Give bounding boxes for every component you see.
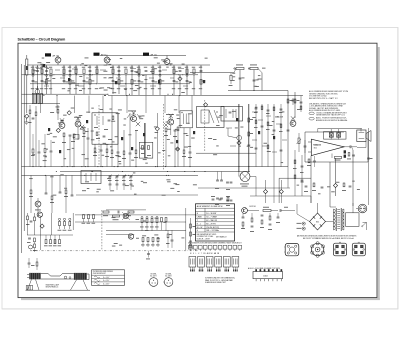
wire center right h196 xyxy=(250,195,311,197)
component drop 9 top band xyxy=(83,75,85,94)
component drop 5 top band xyxy=(50,75,52,94)
cap C24 cluster xyxy=(253,79,256,81)
wire caps to amp xyxy=(326,131,344,133)
resistor R22 cluster xyxy=(250,67,258,69)
circle above filters xyxy=(35,89,40,94)
wire osc net xyxy=(30,175,32,190)
transistor T8 xyxy=(168,119,174,125)
transistor T4 right col xyxy=(290,121,296,127)
amp pin stubs xyxy=(308,141,311,143)
label box D3 xyxy=(143,53,149,56)
node diamond C xyxy=(155,127,159,131)
component drop 7 top band xyxy=(69,66,71,94)
parts right of amp xyxy=(348,153,350,157)
wire bus y234.3 xyxy=(106,233,134,235)
wire pass-through v8 xyxy=(164,96,166,114)
bridge rectifier GL1 xyxy=(310,213,326,230)
component drop 11 top band xyxy=(96,66,98,83)
cap C23 cluster xyxy=(239,77,242,79)
res row mid3 xyxy=(142,238,144,242)
IC U2 DIP package xyxy=(253,272,283,279)
transformer TR1 xyxy=(335,208,337,231)
wire lower h y235 xyxy=(27,234,73,236)
wire lower v x41 xyxy=(40,217,42,250)
svg-text:ZUORDNUNG DER KURVEN: ZUORDNUNG DER KURVEN xyxy=(93,271,113,273)
stage C parts xyxy=(165,128,167,132)
waveform legend box xyxy=(92,270,125,286)
box oscillator coil xyxy=(81,171,101,184)
switch contact strip xyxy=(189,245,193,249)
stage A2 below xyxy=(94,148,96,152)
parts mid cluster xyxy=(45,240,47,244)
value labels top band xyxy=(109,76,113,79)
dial body xyxy=(41,274,89,280)
parts upper 252-282 xyxy=(255,107,258,109)
stage B parts xyxy=(63,133,65,137)
svg-text:ZUM MESSPUNKT: ZUM MESSPUNKT xyxy=(93,273,106,275)
socket BU4 xyxy=(352,243,365,256)
trimmer labels xyxy=(108,179,112,182)
wire pass-through v7 xyxy=(145,96,147,114)
node dot cluster xyxy=(254,90,255,91)
svg-text:BODEN-: BODEN- xyxy=(166,273,172,275)
coil box low xyxy=(139,142,153,158)
wire left bus b xyxy=(23,65,25,231)
wire pass-through v3 xyxy=(74,96,76,114)
node diamond osc xyxy=(40,224,44,228)
component drop 3 top band xyxy=(41,66,43,94)
parts 256-284 xyxy=(255,104,257,167)
wire pass-through v6 xyxy=(126,96,128,114)
node diamond center 2 xyxy=(279,190,283,194)
component drop 19 top band xyxy=(159,66,161,95)
transistor T5 xyxy=(59,123,65,129)
svg-text:250 W. 807 PQ: 250 W. 807 PQ xyxy=(206,227,219,229)
component drop 8 top band xyxy=(75,66,77,94)
node diamond amp out xyxy=(333,183,337,187)
node diamond center 1 xyxy=(263,190,267,194)
wire stubs IF right xyxy=(252,111,257,113)
parts below amp left xyxy=(308,159,310,163)
wire cluster drops xyxy=(239,70,241,91)
wire amp down x353 xyxy=(352,150,354,206)
resistor R21 cluster xyxy=(236,67,244,69)
transistor T3 xyxy=(164,59,170,65)
wires preamp col xyxy=(294,150,296,196)
parts col mid xyxy=(167,234,169,238)
transistor T12 BC158 xyxy=(242,208,248,214)
parts value table xyxy=(196,204,235,241)
pot volume xyxy=(298,138,300,144)
component drop 4 top band xyxy=(46,66,48,94)
svg-text:BODEN-: BODEN- xyxy=(151,273,157,275)
resistor R31 xyxy=(57,110,59,114)
svg-text:10 – 30 KW: 10 – 30 KW xyxy=(206,213,216,215)
supply wiring xyxy=(297,214,310,222)
parts under y205 xyxy=(103,211,109,213)
frame shadow bottom xyxy=(21,298,380,300)
bits near 252b xyxy=(251,218,253,222)
component drop 12 top band xyxy=(112,66,114,94)
transistor T2 xyxy=(104,57,110,63)
svg-text:80 – 29 PO: 80 – 29 PO xyxy=(206,223,216,225)
wire lower v x51 xyxy=(50,213,52,235)
svg-text:Schaltbild – Circuit Diagram: Schaltbild – Circuit Diagram xyxy=(18,37,67,41)
IF block box 3 xyxy=(197,107,225,128)
cap C64 right edge xyxy=(367,157,370,159)
wire mid bus y171.5 xyxy=(60,171,250,173)
node diamond B xyxy=(56,128,60,132)
detector box xyxy=(221,107,243,122)
wire bus y74.8 xyxy=(22,74,199,76)
wire left bus a xyxy=(21,64,23,253)
parts above table xyxy=(212,198,215,200)
wire lower v x73 xyxy=(72,213,74,230)
node diamond C2 xyxy=(176,147,180,151)
cap C58 xyxy=(304,145,307,147)
value labels amp lower xyxy=(357,188,360,191)
wire pass-through v9 xyxy=(178,96,180,114)
transistor T16 xyxy=(128,234,133,239)
svg-text:GEMESSEN MIT TASTKOPF 10:1: GEMESSEN MIT TASTKOPF 10:1 xyxy=(316,114,345,117)
value labels IF band xyxy=(91,107,94,110)
tuning gang VC1 xyxy=(240,172,250,182)
svg-text:ANWEISUNG IM SERVICE-MANUAL: ANWEISUNG IM SERVICE-MANUAL xyxy=(316,119,348,122)
stage A parts xyxy=(29,110,31,114)
wire right col x295 xyxy=(294,92,296,118)
svg-text:B30: B30 xyxy=(316,221,319,223)
parts x248 col xyxy=(248,118,250,122)
label box D2 xyxy=(94,53,100,56)
bus dots xyxy=(33,166,34,167)
wire pass-through v1 xyxy=(40,96,42,114)
wire right edge xyxy=(368,128,370,205)
parts row low C xyxy=(183,150,185,154)
component drop 22 top band xyxy=(186,66,188,95)
cap C63 coupling xyxy=(349,145,351,148)
resistor trio circles xyxy=(58,218,60,220)
cap hang C80 xyxy=(147,253,150,255)
node diamond A xyxy=(67,111,71,115)
mains box xyxy=(346,213,360,227)
wire center h188 xyxy=(198,187,290,189)
wire v x185.8 xyxy=(185,208,187,250)
chassis dash line xyxy=(30,250,198,252)
wire bus y94.2 xyxy=(22,93,109,95)
wire heavy x238.9 xyxy=(238,104,240,172)
notes item symbol 1 xyxy=(309,112,314,115)
parts left cluster b xyxy=(29,245,33,249)
wire mid bus y153 xyxy=(196,152,256,154)
transistor T6 xyxy=(75,121,81,127)
svg-text:L/M/K: L/M/K xyxy=(197,217,203,219)
cap C55 xyxy=(279,209,281,212)
osc transistor T11 xyxy=(35,201,41,207)
ground left xyxy=(25,118,27,122)
component drop 23 top band xyxy=(193,75,195,95)
op-amp U1 TAA611 xyxy=(311,139,344,155)
svg-text:TAA611: TAA611 xyxy=(313,144,322,147)
node diamond top xyxy=(178,77,182,81)
heavy vertical core xyxy=(144,123,146,158)
value labels lower mid2 xyxy=(112,245,116,248)
adjust cross marks xyxy=(60,118,64,122)
svg-text:K – L: K – L xyxy=(197,223,201,225)
parts row low A0 xyxy=(32,149,34,153)
supply terminals xyxy=(302,222,305,225)
dark blob upper xyxy=(43,64,46,67)
node diamond antenna xyxy=(25,114,29,118)
junction dots xyxy=(166,175,167,176)
switch wafer row xyxy=(189,257,196,268)
res pair mid2 xyxy=(161,218,163,222)
label box D1 xyxy=(45,53,51,56)
value labels cluster xyxy=(231,79,235,82)
component drop 13 top band xyxy=(118,66,120,94)
svg-text:AF 12x: AF 12x xyxy=(151,54,159,57)
wire right col x288 xyxy=(287,91,289,167)
cap pair group 1 xyxy=(216,179,219,181)
value labels IF right xyxy=(213,153,217,156)
dashed divider x163 xyxy=(162,104,164,170)
transistor T1 xyxy=(55,57,61,63)
wire bus y90.5 right xyxy=(228,90,288,92)
dashed divider x99 xyxy=(98,105,100,165)
cap C38 xyxy=(139,115,142,117)
svg-text:AF 12x: AF 12x xyxy=(53,54,61,57)
mains plug xyxy=(358,204,367,213)
value labels osc xyxy=(110,189,114,192)
component drop 1 top band xyxy=(32,66,34,94)
svg-text:B11: B11 xyxy=(314,147,317,149)
svg-text:U = 2,3 V: U = 2,3 V xyxy=(103,280,109,282)
parts row low A xyxy=(111,150,113,154)
notes item symbol 2 xyxy=(309,117,314,120)
wire mid bus y166.6 xyxy=(22,166,289,168)
filter box X1 xyxy=(32,94,37,104)
wire bus y95.5 xyxy=(108,95,303,97)
resistor R23 hang xyxy=(230,75,232,80)
svg-text:50 – 7 UMM: 50 – 7 UMM xyxy=(206,217,217,219)
component drop 20 top band xyxy=(173,66,175,95)
svg-text:C304: C304 xyxy=(263,275,268,277)
dash divider x102 xyxy=(101,210,103,250)
transistor T14 xyxy=(37,212,42,217)
cap box above amp xyxy=(324,132,347,140)
wire bus y103.5 xyxy=(22,103,61,105)
wire h y215 xyxy=(75,214,196,216)
value labels lower mid xyxy=(162,194,166,197)
IF block box 2 xyxy=(180,111,192,128)
filter box X2 xyxy=(38,94,43,104)
cap C62 electrolytic xyxy=(337,133,341,138)
wire to right y195 xyxy=(76,194,198,196)
parts left col a xyxy=(27,216,29,220)
component drop 6 top band xyxy=(63,66,65,83)
wire pass-through v2 xyxy=(56,96,58,114)
bits near 262b xyxy=(261,214,264,216)
schematic border frame xyxy=(18,43,377,297)
resistor R55 xyxy=(263,210,271,212)
svg-text:U = 1,0 V: U = 1,0 V xyxy=(103,277,109,279)
wire bus y83.8 xyxy=(30,83,190,85)
component drop 18 top band xyxy=(152,66,154,95)
svg-text:BEI NETZSPG 220 V~ / BATT 9 V: BEI NETZSPG 220 V~ / BATT 9 V xyxy=(309,97,338,100)
svg-text:AF 11x: AF 11x xyxy=(101,54,108,57)
wire low A drops xyxy=(111,96,113,151)
parts center right xyxy=(305,185,308,187)
mains switch xyxy=(363,222,367,224)
dial legs xyxy=(28,279,32,290)
dial bracket xyxy=(26,286,33,291)
transistor T15 xyxy=(123,213,128,218)
svg-text:MIT TABELLE: MIT TABELLE xyxy=(216,236,227,239)
dashed divider x205 xyxy=(204,100,206,152)
svg-text:62 – 5MO W: 62 – 5MO W xyxy=(206,220,217,222)
component drop 10 top band xyxy=(89,66,91,94)
wire h y222 xyxy=(75,221,186,223)
resistor R63 xyxy=(335,156,342,158)
wire h210 xyxy=(106,209,146,211)
resistor R25 right col xyxy=(287,99,289,103)
socket BU2 DIN xyxy=(311,243,323,255)
IF block box 1 xyxy=(92,113,118,144)
component drop 2 top band xyxy=(37,66,39,94)
wire heavy x248.8 xyxy=(248,104,250,172)
res row mid xyxy=(141,216,143,218)
bits near 278b xyxy=(277,216,280,218)
dial drum left xyxy=(29,273,41,279)
component drop 16 top band xyxy=(138,66,140,95)
wire amp down x311 xyxy=(310,156,312,203)
wire pass-through v4 xyxy=(88,96,90,114)
stage B parts 2 xyxy=(83,130,85,134)
wire top bus y65 xyxy=(27,64,210,66)
wire amp down x335.5 xyxy=(335,158,337,183)
node diamond D xyxy=(204,103,208,107)
frame shadow right xyxy=(378,47,380,300)
cap pair group 2 xyxy=(216,197,219,199)
wire bus y230.3 xyxy=(106,229,186,231)
antenna rod xyxy=(26,59,28,75)
transistor T7 xyxy=(131,116,137,122)
speaker LS1 xyxy=(357,130,366,142)
component drop 24 top band xyxy=(200,66,202,95)
parts above dial xyxy=(28,262,31,264)
section outline lower right xyxy=(279,177,311,179)
component drop 21 top band xyxy=(179,75,181,95)
right col parts xyxy=(190,224,192,228)
svg-text:M – W: M – W xyxy=(197,227,203,229)
svg-text:ALLE WIDERST. IN OHM 1/8 W: ALLE WIDERST. IN OHM 1/8 W xyxy=(197,205,223,208)
svg-text:GLEICH + LISTE: GLEICH + LISTE xyxy=(197,238,211,240)
dial drum right xyxy=(74,273,87,280)
resistor trio right xyxy=(83,215,85,219)
bits near 243 xyxy=(242,216,245,218)
wire pass-through v10 xyxy=(191,96,193,114)
socket BU1 xyxy=(285,243,299,255)
wire gang xyxy=(238,172,240,177)
cap C27 right col xyxy=(287,129,290,131)
ratio det circle xyxy=(237,136,242,141)
trimmer row 2 xyxy=(109,183,112,185)
trimmer cluster xyxy=(109,175,112,177)
wire bus y175.4 xyxy=(22,174,199,176)
osc parts xyxy=(30,190,32,194)
wire amp down x330 xyxy=(329,162,331,207)
resistor R71h xyxy=(113,215,120,217)
wire stubs top band xyxy=(36,68,42,70)
parts FM col xyxy=(300,96,302,113)
cap C61 electrolytic xyxy=(329,133,333,138)
component drop 15 top band xyxy=(131,66,133,95)
svg-text:BC158: BC158 xyxy=(250,206,257,208)
svg-text:301 – 317 MHz: 301 – 317 MHz xyxy=(206,230,219,232)
resistor R26 right col xyxy=(294,99,296,103)
component drop 14 top band xyxy=(125,75,127,95)
wire bus y72.7 right xyxy=(190,72,234,74)
component drop 17 top band xyxy=(145,75,147,95)
bits near 270b xyxy=(269,216,271,220)
wire pass-through v5 xyxy=(102,96,104,114)
svg-text:U = 3,6 V: U = 3,6 V xyxy=(103,283,109,285)
wire amp loop xyxy=(304,132,306,162)
socket BU3 xyxy=(334,243,347,256)
wires if to lower xyxy=(273,167,275,203)
wire amp top xyxy=(318,128,362,130)
wire top bus y55 xyxy=(100,55,186,57)
electrolytic blobs xyxy=(48,128,50,131)
